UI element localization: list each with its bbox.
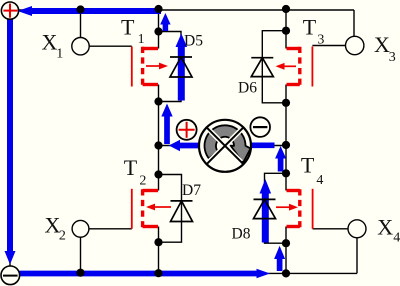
diode D5 <box>170 57 192 77</box>
terminal minus bottom left <box>1 266 20 285</box>
wire left branch source T2 <box>158 227 160 274</box>
diode D7 <box>171 201 193 222</box>
blue current arrow through D5 <box>176 34 188 101</box>
terminal plus top left <box>1 2 18 19</box>
wire left rail <box>9 14 11 266</box>
wire bottom rail <box>11 272 358 274</box>
blue current arrow top rail <box>18 6 162 16</box>
wire right branch middle <box>285 85 287 191</box>
wire X3 gate lead <box>312 45 346 47</box>
node D7 anode <box>154 238 162 246</box>
wire motor horizontal <box>159 145 287 147</box>
transistor T3 <box>276 47 313 87</box>
svg-text:2: 2 <box>59 228 66 243</box>
motor polarity minus <box>250 117 270 137</box>
wire D8 branch <box>265 173 287 243</box>
svg-text:2: 2 <box>139 174 146 189</box>
node D6 anode <box>282 99 290 107</box>
transistor T1 <box>132 47 168 87</box>
wire X1 drop from top rail <box>80 10 82 38</box>
svg-text:D8: D8 <box>232 226 251 243</box>
blue current arrow T1 drain to rail <box>160 13 170 31</box>
node T2 source bottom <box>154 269 162 277</box>
motor M with rotation arrow <box>199 120 251 172</box>
blue current arrow bottom rail <box>20 269 271 279</box>
node T4 source bottom <box>282 269 290 277</box>
svg-text:4: 4 <box>316 173 323 188</box>
node D8 anode <box>282 239 290 247</box>
svg-text:T: T <box>121 15 135 40</box>
wire D6 branch <box>262 31 286 103</box>
svg-text:D7: D7 <box>182 182 201 199</box>
svg-text:3: 3 <box>317 33 324 48</box>
node X1 top rail <box>76 5 84 13</box>
blue current arrow bottom node up to T4 source <box>274 246 285 271</box>
node X2 bottom rail <box>76 269 84 277</box>
wire right branch source T4 <box>285 227 287 274</box>
wire D5 branch <box>159 32 182 102</box>
wire D7 branch <box>159 175 182 243</box>
wire X2 gate lead <box>89 228 132 230</box>
svg-text:4: 4 <box>393 231 400 246</box>
svg-text:T: T <box>303 15 317 40</box>
motor polarity plus <box>177 120 197 140</box>
svg-text:D6: D6 <box>238 80 257 97</box>
node right midpoint <box>282 141 290 149</box>
wire X4 riser <box>356 238 358 273</box>
blue current arrow through D8 <box>260 179 272 243</box>
terminal X2 <box>72 220 89 237</box>
svg-text:X: X <box>374 32 390 57</box>
terminal X4 <box>348 220 366 238</box>
terminal X3 <box>346 36 364 54</box>
transistor T2 <box>132 189 171 229</box>
wire left branch middle <box>158 85 160 191</box>
svg-text:X: X <box>42 30 58 55</box>
wire X4 gate lead <box>313 228 349 230</box>
terminal X1 <box>72 38 89 55</box>
wire X3 drop from top rail <box>353 10 355 37</box>
blue current arrow left rail <box>5 14 16 265</box>
node D7 cathode <box>154 170 162 178</box>
wire X1 gate lead <box>89 45 132 47</box>
node D6 cathode <box>282 27 290 35</box>
diode D8 <box>254 199 276 218</box>
diode D6 <box>251 58 273 77</box>
wire X2 drop to bottom rail <box>80 237 82 273</box>
node T1 drain top <box>154 5 162 13</box>
svg-text:1: 1 <box>56 46 63 61</box>
svg-text:X: X <box>377 215 393 240</box>
node D8 cathode <box>282 169 290 177</box>
node D5 cathode <box>154 27 162 35</box>
node left midpoint <box>154 141 162 149</box>
svg-text:1: 1 <box>138 32 145 47</box>
wire left branch drain T1 <box>158 10 160 49</box>
svg-text:T: T <box>301 153 315 178</box>
svg-text:D5: D5 <box>184 32 203 49</box>
node T3 drain top <box>282 5 290 13</box>
node D5 anode <box>154 97 162 105</box>
wire right branch drain T3 <box>285 10 287 49</box>
blue current arrow midpoint up to T1 source <box>161 104 172 145</box>
svg-text:3: 3 <box>389 50 396 65</box>
blue current segment into motor right <box>251 142 275 148</box>
blue current arrow T4 drain up to midpoint <box>275 146 286 172</box>
transistor T4 <box>276 189 313 229</box>
svg-text:T: T <box>124 155 138 180</box>
blue current arrow out of motor left <box>169 140 200 151</box>
wire top rail <box>10 9 355 11</box>
